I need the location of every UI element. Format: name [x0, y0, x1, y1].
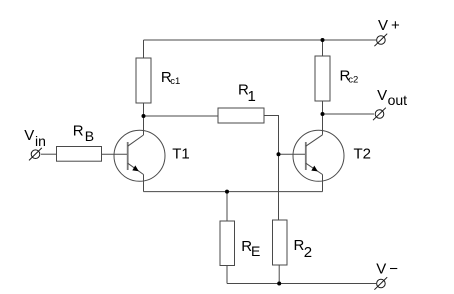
- wire Vin lead: [41, 153, 57, 155]
- svg-text:V: V: [24, 127, 34, 144]
- wire RB to T1 base: [102, 153, 129, 155]
- wire T1 emitter lead: [143, 175, 145, 192]
- svg-text:T2: T2: [354, 146, 372, 163]
- node R2/bottom rail: [277, 282, 281, 286]
- wire RE bottom lead: [226, 266, 228, 284]
- wire T1 collector lead: [143, 116, 145, 135]
- wire Vout lead: [323, 113, 375, 115]
- transistor T2: [293, 130, 344, 181]
- svg-text:B: B: [85, 128, 94, 144]
- terminal Vin: [29, 148, 42, 161]
- svg-text:2: 2: [304, 244, 312, 261]
- svg-text:E: E: [251, 243, 260, 259]
- wire bottom rail V-: [227, 283, 376, 285]
- wire RE top lead: [226, 192, 228, 221]
- svg-text:V: V: [377, 87, 387, 104]
- node emitter rail/RE: [225, 190, 229, 194]
- svg-text:V −: V −: [376, 260, 398, 277]
- svg-text:T1: T1: [172, 145, 190, 162]
- wire Rc1 top lead: [143, 40, 145, 58]
- wire R2 bottom lead: [278, 265, 280, 284]
- resistor RE: [220, 221, 235, 266]
- node Rc1/R1/T1 collector: [142, 114, 146, 118]
- node top rail/Rc2: [321, 38, 325, 42]
- wire T2 collector lead: [322, 114, 324, 135]
- svg-text:out: out: [388, 92, 408, 108]
- wire emitter rail: [144, 191, 323, 193]
- resistor R2: [273, 220, 288, 265]
- wire T2 emitter lead: [322, 175, 324, 192]
- svg-text:c1: c1: [170, 76, 180, 87]
- wire R1 right lead: [264, 116, 279, 221]
- resistor R1: [218, 108, 264, 123]
- wire Rc2 bottom lead: [322, 101, 324, 114]
- node R1/T2 base: [277, 152, 281, 156]
- resistor RB: [57, 147, 102, 162]
- terminal Vout: [373, 108, 386, 121]
- terminal V-: [374, 277, 387, 290]
- wire Rc2 top lead: [322, 40, 324, 56]
- wire T2 base: [279, 153, 307, 155]
- terminal V+: [374, 34, 387, 47]
- svg-text:R: R: [73, 123, 84, 140]
- svg-text:1: 1: [248, 88, 256, 105]
- wire node to R1: [144, 115, 219, 117]
- resistor Rc2: [315, 56, 330, 101]
- svg-text:V +: V +: [378, 17, 400, 34]
- svg-text:c2: c2: [348, 74, 358, 85]
- node Rc2/T2 collector/Vout: [321, 112, 325, 116]
- svg-text:in: in: [35, 133, 46, 149]
- transistor T1: [114, 130, 165, 181]
- wire top rail V+: [144, 39, 377, 41]
- wire Rc1 bottom lead: [143, 103, 145, 116]
- resistor Rc1: [136, 58, 151, 103]
